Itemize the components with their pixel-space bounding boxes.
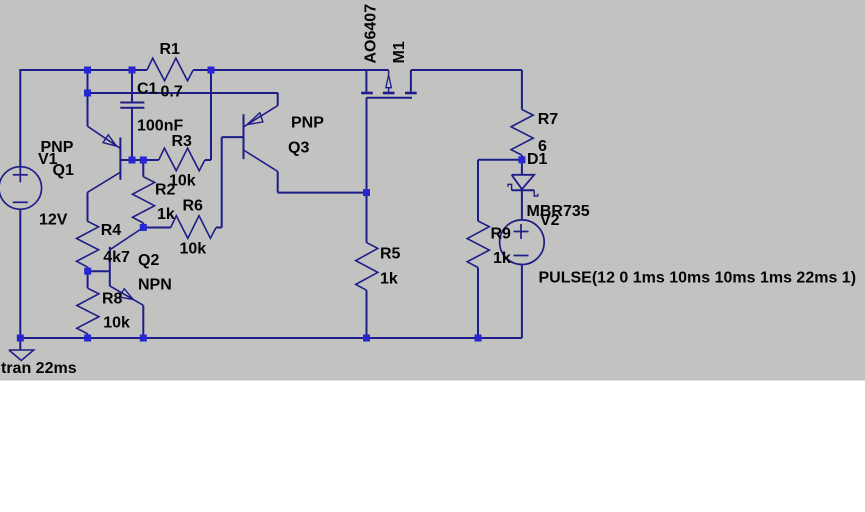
- resistor R7: [511, 110, 533, 156]
- node D1-anode: [518, 156, 525, 163]
- wire: [521, 70, 523, 110]
- node Q1-base-b: [140, 157, 147, 164]
- wire: [19, 69, 21, 167]
- svg-text:M1: M1: [391, 41, 408, 63]
- wire: [87, 334, 89, 338]
- wire: [277, 171, 279, 192]
- wire: [366, 290, 368, 338]
- svg-text:NPN: NPN: [138, 277, 172, 294]
- wire: [88, 270, 110, 272]
- wire: [221, 137, 223, 227]
- svg-text:1k: 1k: [157, 206, 175, 223]
- schematic background: [0, 0, 865, 381]
- wire: [411, 69, 522, 71]
- node gnd-Q2: [140, 335, 147, 342]
- resistor R1: [132, 58, 211, 81]
- wire: [477, 160, 479, 221]
- svg-text:Q1: Q1: [53, 162, 74, 179]
- wire: [88, 92, 279, 94]
- ground: [9, 338, 34, 361]
- svg-text:V2: V2: [540, 212, 560, 229]
- wire: [142, 160, 144, 177]
- node gnd-left: [17, 335, 24, 342]
- wire: [143, 227, 170, 229]
- svg-text:D1: D1: [527, 151, 548, 168]
- diode D1: [508, 175, 538, 196]
- wire: [142, 223, 144, 228]
- wire: [87, 192, 89, 221]
- mosfet M1: [361, 70, 417, 98]
- wire: [132, 159, 143, 161]
- node R1-left: [129, 67, 136, 74]
- resistor R3: [159, 148, 205, 171]
- wire: [120, 159, 132, 161]
- svg-text:PNP: PNP: [291, 115, 324, 132]
- svg-text:R5: R5: [380, 246, 401, 263]
- resistor R2: [133, 177, 155, 223]
- voltage source V1: [0, 167, 42, 210]
- svg-text:1k: 1k: [380, 271, 398, 288]
- transistor Q2: [110, 228, 144, 306]
- svg-text:Q3: Q3: [288, 140, 309, 157]
- node Q1-emitter: [84, 90, 91, 97]
- svg-text:R8: R8: [102, 291, 123, 308]
- svg-text:Q2: Q2: [138, 252, 159, 269]
- svg-text:10k: 10k: [180, 241, 207, 258]
- wire: [20, 337, 522, 339]
- wire: [87, 93, 89, 126]
- capacitor C1: [120, 103, 144, 108]
- svg-text:PULSE(12 0 1ms 10ms 10ms 1ms 2: PULSE(12 0 1ms 10ms 10ms 1ms 22ms 1): [539, 269, 857, 286]
- wire: [143, 159, 158, 161]
- resistor R4: [77, 221, 99, 267]
- svg-text:R2: R2: [155, 182, 176, 199]
- node gnd-R5: [363, 335, 370, 342]
- svg-text:R9: R9: [491, 226, 512, 243]
- node Q1-base-a: [129, 157, 136, 164]
- node gnd-R9: [475, 335, 482, 342]
- wire: [277, 93, 279, 106]
- svg-text:1k: 1k: [493, 250, 511, 267]
- svg-text:R1: R1: [160, 41, 181, 58]
- wire: [142, 305, 144, 338]
- svg-text:AO6407: AO6407: [363, 4, 380, 64]
- wire: [211, 69, 389, 71]
- svg-text:100nF: 100nF: [137, 118, 183, 135]
- node R2-bottom: [140, 224, 147, 231]
- wire: [521, 160, 523, 175]
- wire: [87, 271, 89, 288]
- resistor R6: [171, 216, 216, 239]
- wire: [222, 136, 244, 138]
- wire: [19, 209, 21, 338]
- wire: [521, 190, 523, 220]
- resistor R8: [77, 288, 99, 334]
- transistor Q3: [244, 106, 278, 172]
- resistor R9: [467, 221, 489, 268]
- svg-text:0.7: 0.7: [161, 84, 183, 101]
- wire: [146, 69, 148, 71]
- wire: [87, 70, 89, 93]
- transistor Q1: [88, 126, 121, 192]
- wire: [278, 192, 367, 194]
- svg-text:C1: C1: [137, 81, 158, 98]
- node M1-gate: [363, 189, 370, 196]
- node R1-right: [208, 67, 215, 74]
- node top-left-T: [84, 67, 91, 74]
- svg-text:R7: R7: [538, 111, 559, 128]
- svg-text:4k7: 4k7: [103, 249, 130, 266]
- wire: [366, 98, 368, 243]
- svg-text:R6: R6: [183, 198, 204, 215]
- wire: [478, 159, 522, 161]
- wire: [477, 268, 479, 339]
- node gnd-R8: [84, 335, 91, 342]
- wire: [521, 265, 523, 339]
- svg-text:12V: 12V: [39, 212, 68, 229]
- wire: [521, 155, 523, 160]
- wire: [131, 70, 133, 103]
- voltage source V2: [500, 220, 545, 265]
- wire: [20, 69, 132, 71]
- wire: [205, 159, 211, 161]
- svg-text:R3: R3: [172, 133, 193, 150]
- wire: [87, 267, 89, 271]
- wire: [131, 108, 133, 160]
- svg-text:tran 22ms: tran 22ms: [1, 360, 77, 377]
- svg-text:R4: R4: [101, 222, 122, 239]
- resistor R5: [356, 243, 378, 291]
- wire: [210, 70, 212, 160]
- wire: [216, 227, 222, 229]
- node Q2-base: [84, 268, 91, 275]
- svg-text:10k: 10k: [103, 315, 130, 332]
